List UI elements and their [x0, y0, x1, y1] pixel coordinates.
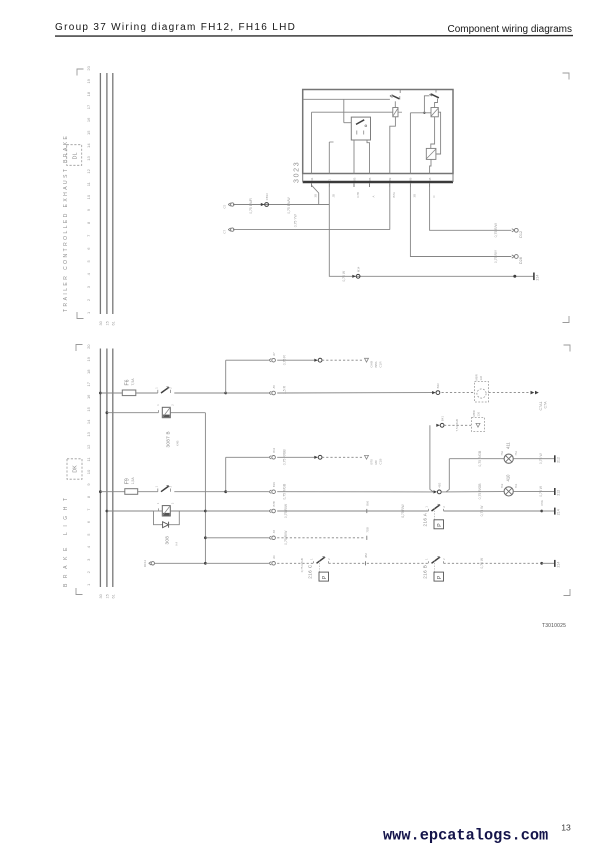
svg-text:12: 12	[86, 444, 91, 449]
svg-text:1: 1	[154, 387, 158, 389]
svg-text:136: 136	[479, 375, 483, 380]
svg-text:A: A	[372, 196, 376, 198]
svg-text:7: 7	[86, 508, 91, 511]
svg-text:3: 3	[86, 285, 91, 288]
svg-text:5: 5	[86, 533, 91, 536]
svg-text:136: 136	[477, 411, 481, 416]
svg-text:3B: 3B	[413, 194, 417, 198]
svg-text:B43: B43	[436, 383, 440, 388]
svg-text:CB13: CB13	[265, 193, 269, 200]
svg-text:0,75 W: 0,75 W	[480, 557, 484, 569]
svg-text:F9: F9	[125, 478, 131, 484]
svg-text:11: 11	[86, 181, 91, 186]
svg-text:9: 9	[86, 208, 91, 211]
svg-text:C: C	[432, 195, 436, 197]
svg-text:0,75 W: 0,75 W	[480, 505, 484, 517]
svg-text:85: 85	[368, 177, 372, 181]
svg-text:1: 1	[425, 506, 429, 508]
svg-text:2: 2	[171, 502, 175, 504]
svg-text:A5: A5	[272, 529, 276, 533]
svg-text:7h3: 7h3	[500, 451, 504, 456]
svg-text:61: 61	[112, 594, 116, 598]
svg-text:411: 411	[506, 442, 511, 449]
svg-text:1,5A: 1,5A	[131, 477, 135, 485]
svg-text:18: 18	[86, 91, 91, 96]
svg-text:A6: A6	[272, 555, 276, 559]
svg-text:M14: M14	[356, 266, 360, 272]
svg-text:DL: DL	[73, 153, 79, 160]
svg-text:8: 8	[86, 495, 91, 498]
svg-text:216 C: 216 C	[308, 564, 313, 579]
svg-text:1: 1	[425, 558, 429, 560]
svg-text:17: 17	[86, 381, 91, 386]
svg-text:K4B: K4B	[176, 440, 180, 446]
svg-text:2: 2	[171, 404, 175, 406]
svg-text:D28: D28	[519, 257, 523, 264]
svg-text:1: 1	[154, 485, 158, 487]
svg-text:3023: 3023	[294, 161, 301, 183]
svg-text:14: 14	[86, 419, 91, 424]
svg-text:7DB: 7DB	[365, 527, 369, 533]
svg-text:0,75 W: 0,75 W	[342, 270, 346, 282]
svg-text:5: 5	[86, 260, 91, 263]
svg-text:20: 20	[86, 65, 91, 70]
svg-text:13: 13	[561, 823, 571, 833]
svg-text:0,75 BN/W: 0,75 BN/W	[287, 197, 291, 214]
svg-text:C1R: C1R	[379, 361, 383, 368]
svg-text:30: 30	[99, 321, 103, 325]
svg-text:B70: B70	[370, 459, 374, 465]
svg-text:0,75 R/GB: 0,75 R/GB	[300, 558, 304, 572]
svg-text:2: 2	[442, 506, 446, 508]
svg-text:A7: A7	[272, 352, 276, 356]
svg-text:2: 2	[327, 558, 331, 560]
svg-text:61: 61	[112, 321, 116, 325]
svg-text:15: 15	[106, 321, 110, 325]
svg-text:BBS: BBS	[374, 361, 378, 367]
svg-text:1: 1	[310, 558, 314, 560]
svg-text:DK: DK	[73, 465, 79, 473]
svg-text:T3010025: T3010025	[542, 623, 566, 629]
svg-text:C7: C7	[223, 230, 227, 234]
svg-text:F6: F6	[125, 379, 131, 385]
svg-text:86: 86	[409, 177, 413, 181]
svg-text:1: 1	[156, 404, 160, 406]
svg-text:D12: D12	[519, 231, 523, 238]
svg-text:7,5 R/GB: 7,5 R/GB	[455, 419, 459, 431]
svg-text:P: P	[437, 575, 443, 579]
svg-text:1: 1	[328, 179, 332, 181]
svg-text:BRAKE LIGHT: BRAKE LIGHT	[63, 492, 69, 587]
svg-text:19: 19	[86, 356, 91, 361]
svg-text:0,75 R/Y: 0,75 R/Y	[494, 249, 498, 263]
svg-text:308: 308	[165, 536, 170, 545]
svg-text:www.epcatalogs.com: www.epcatalogs.com	[383, 827, 548, 845]
svg-text:31: 31	[310, 177, 314, 181]
svg-text:2: 2	[442, 558, 446, 560]
svg-text:8: 8	[86, 221, 91, 224]
svg-text:OHB: OHB	[370, 361, 374, 368]
svg-text:4: 4	[86, 272, 91, 275]
svg-text:20: 20	[86, 344, 91, 349]
svg-text:Group 37 Wiring diagram FH12,: Group 37 Wiring diagram FH12, FH16 LHD	[55, 22, 296, 33]
svg-text:16: 16	[86, 394, 91, 399]
svg-text:4B3: 4B3	[438, 482, 442, 487]
svg-text:10: 10	[86, 469, 91, 474]
svg-text:15: 15	[86, 130, 91, 135]
svg-text:216 B: 216 B	[423, 565, 428, 579]
svg-text:JB: JB	[332, 194, 336, 197]
svg-text:3B: 3B	[314, 194, 318, 198]
svg-text:MBR: MBR	[472, 410, 476, 416]
svg-text:Component wiring diagrams: Component wiring diagrams	[447, 24, 572, 35]
svg-text:0,75 YW: 0,75 YW	[294, 213, 298, 227]
svg-text:0,75 R/GB: 0,75 R/GB	[478, 450, 482, 467]
svg-text:K7B: K7B	[356, 192, 360, 198]
svg-text:82: 82	[388, 177, 392, 181]
svg-text:16: 16	[86, 117, 91, 122]
svg-text:0,75 R/W: 0,75 R/W	[401, 504, 405, 517]
svg-text:B66: B66	[365, 500, 369, 505]
svg-text:B7B: B7B	[272, 501, 276, 506]
svg-text:MC: MC	[374, 459, 378, 464]
svg-text:15: 15	[428, 177, 432, 181]
svg-text:12: 12	[86, 168, 91, 173]
svg-text:A5: A5	[272, 385, 276, 389]
svg-text:214: 214	[557, 509, 561, 515]
svg-text:1: 1	[156, 502, 160, 504]
svg-text:4: 4	[86, 545, 91, 548]
svg-text:410: 410	[506, 474, 511, 482]
svg-text:7,5A: 7,5A	[131, 378, 135, 386]
svg-text:3087 B: 3087 B	[166, 431, 171, 447]
svg-text:18: 18	[86, 369, 91, 374]
svg-text:C7A1: C7A1	[539, 402, 543, 411]
svg-text:15: 15	[106, 594, 110, 598]
svg-text:1: 1	[86, 583, 91, 586]
svg-text:K4: K4	[175, 542, 179, 546]
svg-text:6: 6	[86, 520, 91, 523]
svg-text:C7A: C7A	[544, 401, 548, 409]
svg-text:13: 13	[86, 155, 91, 160]
svg-text:83: 83	[352, 177, 356, 181]
svg-text:13: 13	[86, 431, 91, 436]
svg-text:TRAILER CONTROLLED EXHAUST BRA: TRAILER CONTROLLED EXHAUST BRAKE	[63, 134, 69, 312]
svg-text:3: 3	[86, 558, 91, 561]
svg-text:15: 15	[86, 406, 91, 411]
svg-text:30: 30	[99, 594, 103, 598]
svg-text:K5A: K5A	[540, 500, 544, 505]
svg-text:2: 2	[86, 570, 91, 573]
svg-text:P: P	[437, 523, 443, 527]
svg-text:14: 14	[86, 143, 91, 148]
svg-text:19: 19	[86, 78, 91, 83]
svg-text:17: 17	[86, 104, 91, 109]
svg-text:11: 11	[86, 457, 91, 462]
svg-text:212: 212	[557, 490, 561, 496]
svg-text:0,75 R/GB: 0,75 R/GB	[478, 483, 482, 500]
svg-text:7h1: 7h1	[514, 483, 518, 488]
svg-text:0,75 BN/R: 0,75 BN/R	[249, 198, 253, 214]
svg-text:10: 10	[86, 194, 91, 199]
svg-text:B13: B13	[272, 447, 276, 452]
svg-text:0,75 W: 0,75 W	[539, 453, 543, 465]
svg-text:3B2: 3B2	[364, 553, 368, 558]
svg-text:9: 9	[86, 483, 91, 486]
svg-text:214: 214	[557, 562, 561, 568]
svg-text:212: 212	[557, 457, 561, 463]
svg-text:MBR: MBR	[475, 374, 479, 380]
svg-text:6: 6	[86, 247, 91, 250]
svg-text:2: 2	[86, 298, 91, 301]
svg-text:C5: C5	[223, 204, 227, 208]
svg-text:7: 7	[86, 234, 91, 237]
svg-text:0,75 R/W: 0,75 R/W	[494, 222, 498, 237]
svg-text:C1B: C1B	[379, 459, 383, 465]
svg-text:B19: B19	[272, 482, 276, 487]
svg-text:7h3: 7h3	[500, 483, 504, 488]
svg-text:RC12: RC12	[143, 560, 147, 568]
svg-text:0,75 W: 0,75 W	[539, 485, 543, 497]
svg-text:B41: B41	[440, 416, 444, 421]
svg-text:1: 1	[86, 311, 91, 314]
svg-text:P: P	[322, 575, 328, 579]
svg-text:B7A: B7A	[392, 192, 396, 198]
svg-text:214: 214	[535, 275, 539, 281]
svg-text:7h1: 7h1	[514, 451, 518, 456]
svg-text:216 A: 216 A	[423, 512, 428, 526]
